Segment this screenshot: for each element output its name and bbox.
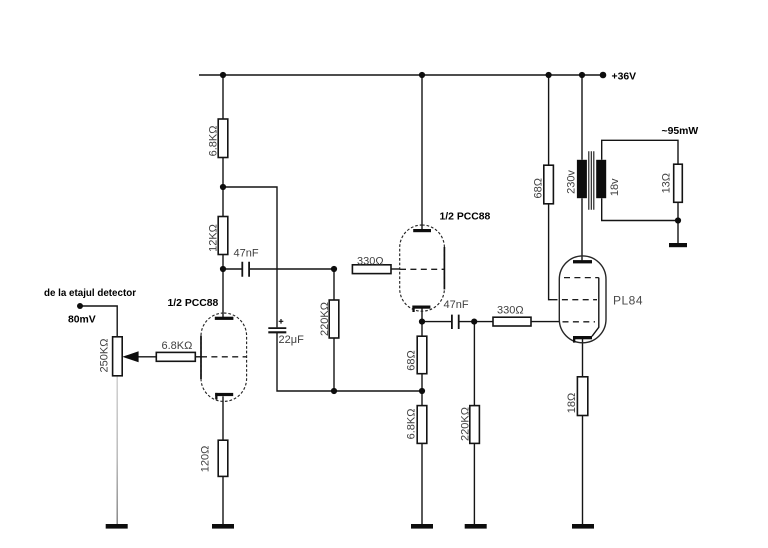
svg-text:250KΩ: 250KΩ (99, 339, 111, 373)
svg-text:220KΩ: 220KΩ (319, 302, 331, 336)
svg-text:230v: 230v (565, 170, 577, 194)
svg-text:80mV: 80mV (68, 315, 96, 326)
svg-text:6.8KΩ: 6.8KΩ (162, 340, 193, 352)
svg-text:6.8KΩ: 6.8KΩ (406, 409, 418, 440)
svg-text:68Ω: 68Ω (406, 350, 418, 370)
svg-text:18v: 18v (609, 178, 621, 196)
svg-text:330Ω: 330Ω (357, 256, 384, 268)
svg-text:18Ω: 18Ω (566, 393, 578, 413)
svg-text:120Ω: 120Ω (200, 446, 212, 473)
svg-text:6.8KΩ: 6.8KΩ (208, 126, 220, 157)
svg-text:68Ω: 68Ω (533, 178, 545, 198)
svg-text:47nF: 47nF (234, 248, 259, 260)
svg-text:22μF: 22μF (279, 334, 305, 346)
svg-text:1/2 PCC88: 1/2 PCC88 (168, 298, 219, 309)
svg-text:1/2 PCC88: 1/2 PCC88 (440, 212, 491, 223)
svg-text:47nF: 47nF (444, 299, 469, 311)
svg-text:~95mW: ~95mW (662, 126, 699, 137)
svg-text:de la etajul detector: de la etajul detector (44, 288, 136, 299)
svg-text:220KΩ: 220KΩ (460, 407, 472, 441)
svg-text:13Ω: 13Ω (661, 173, 673, 193)
svg-text:12KΩ: 12KΩ (208, 224, 220, 252)
svg-text:PL84: PL84 (613, 294, 643, 308)
svg-text:+36V: +36V (612, 72, 637, 83)
svg-text:330Ω: 330Ω (497, 305, 524, 317)
